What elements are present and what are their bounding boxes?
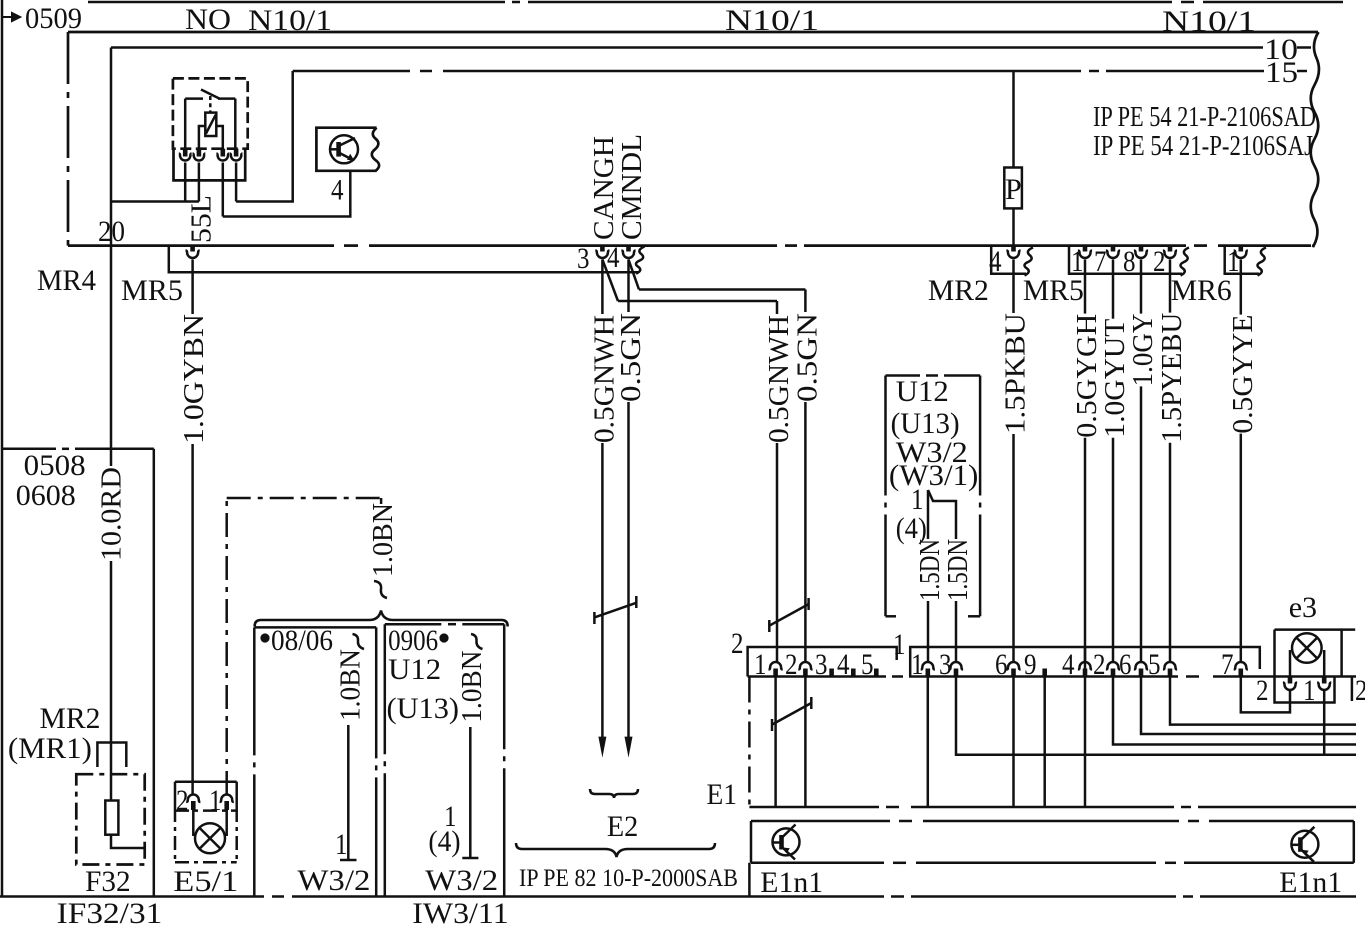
splice box U12/W3 top edge seg1 (886, 374, 921, 377)
e3 pin 2 socket (1283, 683, 1297, 691)
svg-text:1: 1 (1303, 674, 1316, 707)
E1 strip1 pin 3 socket (949, 662, 963, 670)
box 0906 top break dash (448, 623, 456, 626)
svg-text:2: 2 (731, 627, 744, 660)
svg-text:U12: U12 (896, 375, 949, 408)
lamp e3 bulb X stroke 2 (1296, 638, 1317, 659)
svg-text:10.0RD: 10.0RD (97, 467, 128, 561)
e3 pin 1 socket (1317, 683, 1331, 691)
svg-text:MR4: MR4 (37, 264, 96, 297)
MR5 pin 1 socket (1078, 251, 1092, 259)
transistor stage box (torn right edge) (316, 128, 376, 171)
relay coil (205, 113, 216, 136)
control unit N10/1 bottom edge seg4 (1218, 244, 1311, 247)
transistor E1n1 left base bar (779, 835, 784, 850)
ground wire 1.5DN right lower to E1 pin3 (955, 601, 958, 662)
lamp E5/1 right edge upper (235, 782, 238, 808)
splice box U12/W3 top edge seg2 (944, 374, 980, 377)
svg-text:2: 2 (1355, 674, 1365, 707)
hook at 08/06 label (353, 634, 365, 649)
E1 strip1 pin 6b socket (1134, 662, 1148, 670)
hook at 1.0BN box2 label top (471, 634, 483, 649)
strip bottom rail break dash 2 (1186, 675, 1199, 678)
MR5 pin 8 socket (1134, 251, 1148, 259)
svg-text:08/06: 08/06 (271, 624, 333, 657)
svg-text:0608: 0608 (16, 479, 76, 512)
E1 strip1 pin 3 stub (954, 669, 959, 677)
svg-text:U12: U12 (388, 653, 441, 686)
svg-text:4: 4 (607, 241, 620, 274)
E1 internal wire pin9 (1043, 677, 1046, 808)
CAN low branch wire down upper (804, 290, 807, 313)
wire MR6-1 upper (0.5GYYE) (1240, 260, 1243, 315)
ground box 08/06 right edge (375, 627, 378, 896)
bottom edge break dash 3 (1194, 244, 1207, 247)
svg-text:E1: E1 (707, 778, 738, 811)
wire MR2-4 upper (1.5PKBU) (1012, 260, 1015, 314)
svg-text:0.5GN: 0.5GN (616, 313, 647, 402)
relay pin 3 stub (221, 149, 226, 157)
wire 55L upper segment (191, 260, 194, 315)
overbrace above ground points (255, 611, 508, 627)
page left border (1, 0, 4, 897)
E1 strip2 pin 2 stub (803, 669, 808, 677)
E5/1 bulb X stroke 1 (199, 828, 220, 849)
E1 internal wire pin2 (CAN) (804, 677, 807, 808)
wire MR5-1 lower to E1 pin4 (1084, 438, 1087, 662)
relay pin 2 stub (197, 149, 202, 157)
E1 strip1 pin 6 socket (1006, 662, 1020, 670)
MR5 pin 1 stub (1083, 246, 1088, 252)
relay switch contact right (218, 97, 235, 100)
terminal 15 rail seg2 (443, 70, 1081, 73)
branch twist tick right (807, 598, 810, 610)
svg-text:N10/1: N10/1 (1162, 5, 1256, 38)
ground module E1n1 bottom edge seg3 (1184, 862, 1354, 865)
transistor E1n1 right body (1291, 831, 1318, 858)
connector MR2 bracket at fuse (97, 743, 126, 768)
separator below E1n1 left (748, 863, 751, 897)
page top border (segment 2) (528, 1, 1172, 4)
ground box 0906 top edge seg1 (385, 623, 442, 626)
transistor E1n1 right collector (1300, 827, 1314, 841)
svg-text:E2: E2 (607, 810, 638, 843)
bottom boundary line B segment 1 (0, 895, 264, 898)
transistor E1n1 right base bar (1298, 837, 1303, 852)
wire relay pin4 to 15 rail (236, 71, 293, 202)
E1 strip1 pin 4 stub (1083, 669, 1088, 677)
node E2 underbrace (590, 789, 638, 798)
bottom edge break dash 2 (785, 244, 797, 247)
CAN low wire lower (627, 402, 630, 738)
E1 box bottom edge seg2 (1198, 806, 1356, 809)
E1 strip2 pin 3 tick (829, 669, 834, 677)
svg-text:4: 4 (331, 174, 344, 207)
component P wire to pin (1012, 208, 1015, 245)
svg-text:IF32/31: IF32/31 (57, 897, 163, 930)
E1 strip bottom rail seg2 (909, 675, 1178, 678)
wire MR5-8 lower to E1 pin6b (1140, 386, 1143, 662)
component P box (1004, 168, 1022, 209)
transistor Q1 body (330, 135, 358, 163)
E1 box left edge (dash-dot) (748, 677, 751, 808)
E1 strip1 pin 2 socket (1106, 662, 1120, 670)
E1 strip1 separator at pin 4 (1084, 647, 1087, 677)
E1 internal wire pin1 (CAN) (774, 677, 777, 808)
relay connector housing (174, 149, 246, 181)
lamp e3 right leg (1323, 650, 1326, 677)
E1 strip1 pin 6 stub (1011, 669, 1016, 677)
control unit N10/1 bottom edge seg2 (369, 244, 777, 247)
optional wire drop to splice (dash-dot) (380, 498, 383, 504)
branch twist tick left (768, 620, 771, 632)
svg-text:0508: 0508 (24, 449, 86, 482)
E1 strip1 pin 4 socket (1078, 662, 1092, 670)
wire e3 pin1 down to ground line (1323, 691, 1326, 755)
MR2 pin 4 stub (1011, 246, 1016, 252)
relay left contact leg (184, 99, 187, 150)
svg-text:CMNDL: CMNDL (617, 134, 648, 240)
svg-text:1: 1 (1071, 245, 1084, 278)
wire 55L lower segment to E5/1 (191, 444, 194, 795)
svg-text:1.0GYBN: 1.0GYBN (179, 314, 210, 444)
pin 55L socket (186, 251, 200, 259)
lamp e3 box top edge and feed (1275, 628, 1356, 631)
pin 4 CAN stub (626, 246, 631, 252)
relay switch blade (201, 90, 220, 99)
svg-text:NO: NO (185, 3, 231, 36)
fuse F32 element (105, 801, 118, 835)
optional wire horizontal (dash-dot) (227, 497, 381, 500)
E1 connector strip 1 top rail (910, 647, 1260, 677)
ground module E1n1 bottom edge seg2 (916, 862, 1156, 865)
ground terminal T-bar box2 (462, 857, 478, 860)
svg-text:MR5: MR5 (121, 274, 183, 307)
MR5 pin 2 socket (1163, 251, 1177, 259)
relay right contact leg (234, 99, 237, 150)
ground wire 1.5DN left lower to E1 pin1 (927, 601, 930, 662)
E1 strip1 pin 7 stub (1239, 669, 1244, 677)
CAN low branch wire down lower (804, 402, 807, 662)
splice box top break dash (926, 374, 938, 377)
E1 box bottom edge seg1 (749, 806, 879, 809)
splice box U12/W3 right edge (979, 376, 982, 617)
E1n1 top edge break dash (899, 820, 912, 823)
ground box 08/06 left edge (253, 627, 256, 896)
svg-text:W3/2: W3/2 (297, 864, 370, 897)
wire terminal10 riser / pin20 feed upper (110, 48, 113, 467)
E1 strip1 pin 5 socket (1163, 662, 1177, 670)
wire bus to terminal10 riser (111, 200, 199, 203)
ground module E1n1 left edge (750, 821, 753, 863)
E1 strip2 pin 1 stub (773, 669, 778, 677)
svg-text:55L: 55L (187, 195, 218, 243)
E1 strip1 pin 5 stub (1168, 669, 1173, 677)
relay pin 4 stub (234, 149, 239, 157)
transistor E1n1 right emitter arrowhead (1301, 850, 1308, 856)
E1 strip1 pin 9 tick (1042, 669, 1047, 677)
E1 box bottom edge seg1b (911, 806, 1174, 809)
E1 box bottom break dash (1181, 806, 1191, 809)
E5/1 pin 1 socket (220, 795, 234, 803)
bottom boundary line B break dash (272, 895, 284, 898)
relay coil right lead (216, 126, 223, 150)
ground wire box2 (469, 727, 472, 858)
bullet 08/06 (260, 633, 269, 642)
strip bottom rail break dash (892, 675, 903, 678)
pin 4 CAN socket (621, 251, 635, 259)
lamp E5/1 housing left edge (dash-dot) (174, 808, 177, 862)
control unit N10/1 top edge (68, 31, 1318, 34)
CAN high branch horizontal (618, 300, 777, 303)
harness underbrace (E2 group) (516, 843, 715, 857)
svg-text:0.5GYGH: 0.5GYGH (1072, 314, 1103, 438)
arrow to sheet 0509 (3, 13, 20, 21)
page top border break dash 2 (1181, 1, 1194, 4)
E1 strip1 pin 1 socket (921, 662, 935, 670)
terminal 15 rail seg1 (293, 70, 410, 73)
relay pin 1 stub (183, 149, 188, 157)
bottom boundary line B break dash 2 (891, 895, 904, 898)
fuse box area right edge (153, 449, 156, 897)
svg-text:N10/1: N10/1 (725, 4, 819, 37)
terminal 15 rail seg3 (1106, 70, 1264, 73)
E5/1 bulb right lead (225, 810, 228, 836)
CAN low arrowhead (E2) (625, 737, 633, 758)
splice fork wire (928, 490, 956, 539)
bottom boundary line B segment 4 (1200, 895, 1356, 898)
page top border (segment 3) (1203, 1, 1343, 4)
splice box foot left (886, 615, 897, 618)
wire MR5-7 upper (1.0GYUT) (1112, 260, 1115, 319)
connector MR5 right strip (1069, 246, 1182, 274)
svg-text:MR5: MR5 (1023, 274, 1084, 307)
E5/1 pin 2 stub (191, 801, 196, 810)
E5/1 bulb left lead (192, 810, 195, 836)
svg-text:1: 1 (209, 784, 222, 817)
svg-text:1: 1 (1227, 245, 1240, 278)
CAN high wire upper (601, 260, 604, 315)
svg-text:0509: 0509 (25, 2, 82, 35)
CAN low branch diagonal (629, 260, 640, 290)
ground module E1n1 top edge seg2 (923, 820, 1179, 823)
svg-text:1.0BN: 1.0BN (368, 503, 399, 577)
twist symbol tick left (593, 612, 596, 624)
relay pin 1 socket (179, 154, 192, 161)
svg-text:1: 1 (893, 628, 906, 661)
E5/1 bulb X stroke 2 (199, 828, 220, 849)
ground terminal T-bar box1 (340, 859, 357, 862)
E1n1 top edge break dash 2 (1188, 820, 1199, 823)
E1 strip bottom rail seg3 (1213, 675, 1356, 678)
svg-text:1.0BN: 1.0BN (336, 649, 367, 721)
connector MR2 torn end (1024, 248, 1033, 276)
relay armature link (dashed) (209, 96, 212, 113)
svg-text:IP PE 54 21-P-2106SAJ: IP PE 54 21-P-2106SAJ (1093, 131, 1313, 162)
wire MR2-4 lower to E1 pin6 (1012, 434, 1015, 662)
wire MR5-2 lower to E1 pin5 (1169, 443, 1172, 662)
ground module E1n1 top edge seg1 (751, 820, 890, 823)
relay K outline (dashed box) (173, 78, 248, 148)
relay coil diagonal (206, 115, 216, 134)
E1 strip2 pin 1 socket (769, 662, 783, 670)
control unit N10/1 bottom edge seg3 (804, 244, 1186, 247)
svg-text:1.0BN: 1.0BN (457, 651, 488, 723)
wire MR5-2 upper (1.5PYEBU) (1169, 260, 1172, 313)
transistor E1n1 right emitter (1300, 849, 1314, 862)
E1 strip1 pin 1 stub (925, 669, 930, 677)
ground wire box1 (347, 725, 350, 860)
transistor E1n1 left collector (782, 825, 796, 839)
svg-text:MR2: MR2 (928, 274, 989, 307)
control unit N10/1 bottom edge seg1 (68, 244, 334, 247)
svg-text:0.5GN: 0.5GN (793, 313, 824, 402)
svg-text:(U13): (U13) (387, 692, 460, 725)
E1 internal twist diagonal (772, 703, 811, 725)
ground module E1n1 bottom edge seg1 (751, 862, 884, 865)
relay pin 3 socket (216, 154, 229, 161)
svg-text:3: 3 (577, 242, 590, 275)
svg-text:e3: e3 (1289, 591, 1317, 624)
E1 strip1 pin 7 socket (1234, 662, 1248, 670)
MR6 pin 1 stub (1239, 246, 1244, 252)
bottom boundary line B break dash 3 (1183, 895, 1193, 898)
E1 strip2 pin 2 socket (798, 662, 812, 670)
lamp e3 box right edge (1340, 630, 1343, 677)
E5/1 bulb symbol (195, 823, 225, 853)
E1 strip2 pin 4 tick (851, 669, 856, 677)
transistor Q1 collector (339, 138, 355, 146)
splice hook symbol (374, 581, 387, 598)
transistor E1n1 left base lead (773, 841, 782, 844)
svg-text:W3/2: W3/2 (425, 864, 498, 897)
wire E1 pin7 to e3 pin2 (1241, 677, 1290, 713)
E1n1 bottom edge break dash 2 (1165, 862, 1176, 865)
wire pin20 feed lower to fuse F32 (110, 561, 113, 801)
MR6 pin 1 socket (1234, 251, 1248, 259)
E1 internal wire pin1 strip1 (927, 677, 930, 808)
CAN low wire upper (627, 260, 630, 313)
transistor Q1 base bar (336, 142, 341, 157)
splice box U12/W3 left edge (884, 376, 887, 617)
MR5 pin 7 socket (1106, 251, 1120, 259)
terminal 10 rail stub to edge (1297, 46, 1311, 49)
E1 strip1 pin 6b stub (1139, 669, 1144, 677)
twist symbol tick right (635, 596, 638, 608)
transistor Q1 emitter arrowhead (347, 154, 355, 161)
svg-text:0.5GNWH: 0.5GNWH (764, 315, 795, 443)
svg-text:1.5PKBU: 1.5PKBU (1001, 313, 1032, 434)
ground box 0906 top edge seg2 (462, 623, 504, 626)
e3 pin 1 stub (1322, 677, 1327, 684)
E1 strip2 pin 5 tick (874, 669, 879, 677)
svg-text:1.0GY: 1.0GY (1128, 314, 1159, 387)
bullet 0906 (439, 633, 448, 642)
bottom edge break dash (344, 244, 358, 247)
svg-text:E1n1: E1n1 (760, 866, 823, 899)
svg-text:1.5DN: 1.5DN (943, 539, 974, 601)
svg-text:1.5DN: 1.5DN (915, 539, 946, 601)
page top border (segment 1) (88, 1, 505, 4)
svg-text:8: 8 (1123, 245, 1136, 278)
ground box 0906 right edge (503, 624, 506, 896)
lamp e3 bulb X stroke 1 (1296, 638, 1317, 659)
lamp E5/1 housing bottom edge (dash-dot) (175, 861, 237, 864)
E1 internal twist tick left (771, 719, 774, 731)
CAN high wire lower (601, 443, 604, 738)
transistor stage torn edge (372, 128, 379, 171)
15 rail break dash 2 (1089, 70, 1099, 73)
transistor Q1 emitter with arrow (339, 153, 352, 160)
fuse box area top edge seg1 (2, 448, 56, 451)
wire relay pin4 down (235, 163, 238, 202)
connector MR5 left strip (169, 246, 639, 273)
fuse box area top edge seg2 (75, 448, 154, 451)
transistor E1n1 left emitter (782, 847, 796, 860)
lamp E5/1 housing divider (dash-dot) (175, 809, 237, 812)
svg-text:IW3/11: IW3/11 (412, 897, 508, 930)
svg-text:MR2: MR2 (40, 702, 101, 735)
E1 internal wire pin3 to right (956, 677, 1356, 755)
svg-text:MR6: MR6 (1171, 274, 1232, 307)
svg-text:CANGH: CANGH (589, 136, 620, 240)
e3 connector housing (1275, 677, 1335, 703)
wire E1 pin6b to right edge (1141, 677, 1356, 735)
E5/1 pin 2 socket (186, 795, 200, 803)
connector MR5 right torn end (1180, 248, 1189, 276)
pin 3 CAN socket (595, 251, 609, 259)
CAN high branch wire down lower (776, 443, 779, 662)
wire relay pin3 down (222, 163, 225, 217)
bottom boundary line B segment 3 (911, 895, 1176, 898)
bottom boundary line B segment 2 (292, 895, 884, 898)
relay coil left lead (199, 126, 205, 150)
wire relay pin1 down (184, 163, 187, 202)
transistor E1n1 right base lead (1292, 844, 1301, 847)
CAN high branch diagonal (602, 260, 618, 302)
splice box foot right (968, 615, 980, 618)
CAN low branch horizontal (639, 288, 805, 291)
transistor Q1 base lead (330, 148, 339, 151)
svg-text:2: 2 (1256, 674, 1269, 707)
fuse box top edge break dash (62, 448, 69, 451)
MR5 pin 8 stub (1139, 246, 1144, 252)
wire E1 pin2 to right edge (1113, 677, 1356, 745)
svg-text:(W3/1): (W3/1) (889, 459, 979, 492)
pin 55L stub (190, 246, 195, 252)
wire E1 pin5 to right edge (1170, 677, 1356, 725)
page top border break dash (512, 1, 520, 4)
svg-text:IP PE 54 21-P-2106SAD: IP PE 54 21-P-2106SAD (1093, 102, 1316, 133)
control unit N10/1 left edge (dash-dot) (67, 32, 70, 246)
connector MR5 left strip torn end (636, 247, 645, 274)
svg-text:1.0GYUT: 1.0GYUT (1100, 319, 1131, 438)
wire MR5-8 upper (1.0GY) (1140, 260, 1143, 314)
connector MR6 strip (1225, 246, 1259, 274)
svg-text:1.5PYEBU: 1.5PYEBU (1157, 313, 1188, 443)
svg-text:N10/1: N10/1 (248, 4, 332, 37)
branch pair twist symbol diagonal (769, 604, 808, 626)
ground wire 1.5DN left upper (927, 490, 930, 539)
fuse F32 output wire (111, 835, 145, 848)
lamp e3 box left edge (1273, 630, 1276, 677)
control unit N10/1 torn right edge (wavy) (1311, 32, 1319, 246)
wire MR5-1 upper (0.5GYGH) (1084, 260, 1087, 314)
ground module E1n1 right edge (1353, 821, 1356, 863)
right edge connector cell bracket (1351, 677, 1354, 702)
transistor E1n1 left emitter arrowhead (783, 848, 790, 854)
wire MR5-7 lower to E1 pin2 (1112, 438, 1115, 662)
